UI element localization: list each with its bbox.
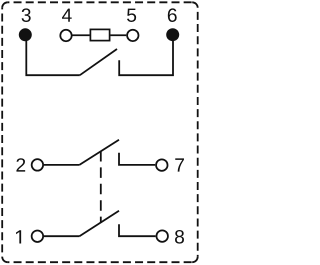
pin label 7 [175, 158, 184, 171]
terminal pin 6 (filled) [166, 28, 179, 41]
pin label 2 [16, 158, 25, 171]
middle switch fixed contact stub [119, 153, 155, 165]
wire pin2 to middle armature pivot [44, 164, 79, 166]
relay body outline: top-left corner arc [2, 2, 8, 8]
wire pin3 down and right (top switch common) [26, 41, 80, 75]
terminal pin 8 (open circle) [156, 230, 168, 242]
coil K1 (rectangle) [90, 29, 109, 40]
pin label 5 [127, 9, 136, 22]
relay body outline: top-right corner arc [192, 2, 198, 8]
pin label 3 [22, 8, 31, 22]
relay body outline: left dashed edge [1, 8, 3, 257]
terminal pin 3 (filled) [19, 28, 32, 41]
pin label 4 [62, 9, 72, 22]
coil pin 4 terminal (open circle) [60, 30, 71, 41]
pin label 8 [175, 230, 184, 244]
terminal pin 7 (open circle) [156, 159, 168, 171]
pin label 6 [168, 8, 177, 22]
mechanical link (dashed) between middle and bottom armatures [100, 151, 102, 223]
wire pin1 to bottom armature pivot [44, 235, 79, 237]
bottom switch fixed contact stub [119, 224, 156, 236]
pin label 1 [16, 230, 21, 243]
relay body outline: top dashed edge [8, 1, 193, 3]
relay body outline: right dashed edge [197, 8, 199, 257]
top switch armature (moving contact) [80, 49, 117, 75]
wire pin4 to coil [73, 34, 90, 36]
terminal pin 2 (open circle) [32, 159, 44, 171]
middle switch armature [79, 140, 119, 165]
relay body outline: bottom-right corner arc [192, 257, 198, 263]
wire coil to pin5 [110, 34, 126, 36]
top switch fixed contact stub [119, 41, 173, 75]
relay body outline: bottom-left corner arc [2, 257, 8, 263]
coil pin 5 terminal (open circle) [127, 30, 138, 41]
bottom switch armature [79, 211, 119, 236]
terminal pin 1 (open circle) [32, 230, 44, 242]
relay body outline: bottom dashed edge [8, 261, 193, 263]
